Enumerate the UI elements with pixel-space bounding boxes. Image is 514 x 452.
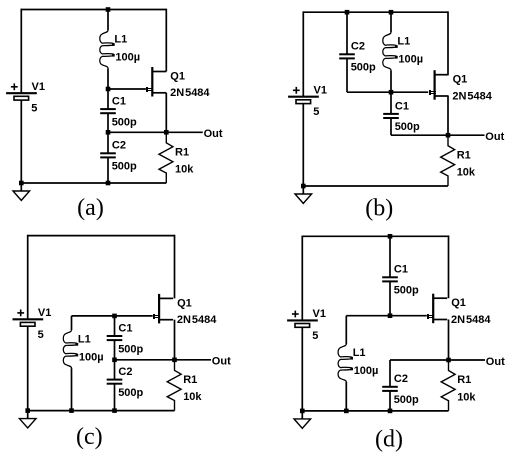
junction (d) L1 bottom node [344,409,349,414]
svg-text:(c): (c) [76,424,103,450]
circuit (c) [13,235,232,450]
wire (c) out rail [115,359,175,361]
battery V1 (d) body [295,324,310,328]
ground (a) stub [20,183,22,191]
svg-text:R1: R1 [183,374,197,386]
junction (a) top rail / L1 [106,7,111,12]
wire (a) L1 bottom lead [107,68,109,89]
wire (d) C1 bottom lead [389,281,391,315]
svg-text:C2: C2 [351,41,365,53]
svg-text:10k: 10k [457,391,476,403]
junction (a) out node [164,130,169,135]
svg-text:500p: 500p [118,343,143,355]
svg-text:L1: L1 [353,347,366,359]
resistor R1 (b) [441,135,455,186]
wire (d) gate wire [346,315,427,317]
wire (c) top rail [28,235,175,237]
inductor L1 (b) [383,32,397,70]
wire (c) C1 bottom lead [114,340,116,360]
ground (b) [295,194,312,203]
svg-text:Q1: Q1 [451,297,466,309]
capacitor C2 (d) [382,386,398,388]
wire (d) C2 top lead [389,360,391,387]
wire (a) C2 bottom lead [107,157,109,183]
resistor R1 (d) [441,360,455,411]
capacitor C1 (b) [383,113,399,115]
wire (c) bottom rail [28,410,175,412]
battery V1 (c) top plate [13,318,44,320]
transistor Q1 (a) source lead [152,92,166,94]
svg-text:L1: L1 [78,333,91,345]
wire (b) out rail [391,134,448,136]
junction (d) C2 bottom node [388,409,393,414]
wire (d) source rail [448,320,450,361]
transistor Q1 (c) source lead [159,319,173,321]
battery V1 (d) plus sign [292,313,299,315]
junction (c) C1/C2 node [112,358,117,363]
junction (d) ground node [300,409,305,414]
svg-text:Out: Out [486,356,505,368]
junction (a) ground node [19,181,24,186]
svg-text:500p: 500p [112,116,137,128]
wire (b) gate wire [347,91,428,93]
wire (b) drain rail [447,11,449,74]
wire (d) bottom rail [302,410,448,412]
svg-text:L1: L1 [397,36,410,48]
svg-text:L1: L1 [114,34,127,46]
wire (a) top rail [21,9,166,11]
ground (d) [294,419,311,428]
svg-text:100µ: 100µ [115,52,140,64]
capacitor C2 (b) [339,53,355,55]
wire (b) L1 top lead [390,12,392,32]
inductor L1 (d) [338,344,352,382]
svg-text:R1: R1 [457,374,471,386]
junction (b) ground node [301,184,306,189]
svg-text:Q1: Q1 [177,297,192,309]
svg-text:R1: R1 [457,149,471,161]
battery V1 (a) top plate [6,92,37,94]
wire (c) C1 top lead [114,316,116,336]
wire (c) L1 bottom lead [71,368,73,411]
svg-text:10k: 10k [183,391,202,403]
capacitor C1 (a) [100,108,116,110]
svg-text:2N 5484: 2N 5484 [170,87,210,99]
svg-text:C1: C1 [394,264,408,276]
wire (b) L1 bottom lead [390,70,392,92]
wire (a) drain rail [165,9,167,72]
ground (d) stub [301,411,303,419]
svg-text:500p: 500p [394,285,419,297]
transistor Q1 (b) source lead [435,95,449,97]
svg-text:10k: 10k [175,164,194,176]
wire (a) bottom rail [21,182,166,184]
capacitor C1 (c) [107,335,123,337]
wire (c) C2 bottom lead [114,384,116,411]
wire (b) C2 top lead [346,12,348,54]
wire (b) left rail upper [302,11,304,96]
svg-text:C2: C2 [112,140,126,152]
junction (a) C1/C2 node [106,130,111,135]
wire (b) left rail lower [302,104,304,186]
junction (d) out node [446,358,451,363]
svg-text:100µ: 100µ [398,54,423,66]
transistor Q1 (b) drain lead [435,74,449,76]
resistor R1 (a) [159,132,173,183]
svg-text:V1: V1 [32,81,45,93]
wire (b) C2 bottom lead [346,58,348,92]
battery V1 (c) plus sign [17,312,24,314]
svg-text:V1: V1 [314,85,327,97]
wire (d) C2 bottom lead [389,391,391,411]
wire (a) C1 bottom lead [107,113,109,132]
svg-text:500p: 500p [351,62,376,74]
wire (c) drain rail [174,235,176,299]
battery V1 (b) body [296,100,311,104]
junction (c) gate node / C1 [112,314,117,319]
wire (c) left rail upper [27,235,29,320]
wire (a) left rail lower [20,100,22,183]
wire (b) top rail [303,11,448,13]
ground (a) [13,191,30,200]
svg-text:V1: V1 [38,307,51,319]
battery V1 (b) top plate [288,96,319,98]
junction (a) C2 bottom node [106,181,111,186]
svg-text:(b): (b) [365,195,393,221]
wire (c) source rail [174,320,176,360]
svg-text:C2: C2 [394,373,408,385]
transistor Q1 (a) gate arrow [146,87,153,92]
circuit (d) [287,234,505,452]
svg-text:10k: 10k [457,167,476,179]
svg-text:2N 5484: 2N 5484 [177,314,217,326]
resistor R1 (c) [167,360,181,411]
junction (d) top rail / C1 [388,234,393,239]
junction (c) L1 bottom node [69,408,74,413]
wire (d) L1 top lead [345,316,347,344]
wire (a) L1 top lead [107,10,109,31]
wire Out (c) [175,359,212,361]
capacitor C2 (a) [100,152,116,154]
wire (b) bottom rail [303,185,448,187]
junction (b) top rail / L1 [389,10,394,15]
svg-text:500p: 500p [118,387,143,399]
inductor L1 (c) [63,330,77,368]
wire (a) C1 top lead [107,89,109,109]
svg-text:100µ: 100µ [79,351,104,363]
transistor Q1 (d) gate arrow [427,314,434,319]
wire (a) C2 top lead [107,132,109,153]
battery V1 (a) plus sign [11,86,18,88]
junction (c) C2 bottom node [112,408,117,413]
circuit (b) [288,10,504,222]
wire (d) C1 top lead [389,236,391,277]
svg-text:Out: Out [204,128,223,140]
svg-text:Q1: Q1 [453,74,468,86]
wire (c) gate wire [72,315,153,317]
transistor Q1 (d) channel bar [432,294,434,324]
svg-text:Out: Out [212,356,231,368]
wire (c) L1 top lead [71,316,73,330]
transistor Q1 (d) drain lead [433,297,447,299]
wire (c) C2 top lead [114,360,116,380]
svg-text:C1: C1 [112,96,126,108]
svg-text:(d): (d) [375,426,403,452]
svg-text:500p: 500p [394,394,419,406]
junction (b) top rail / C2 [345,10,350,15]
junction (b) gate node [389,90,394,95]
wire (d) left rail upper [301,235,303,320]
wire Out (a) [166,131,203,133]
wire (b) C1 bottom lead [390,118,392,135]
svg-text:2N 5484: 2N 5484 [451,314,491,326]
wire (a) left rail upper [20,9,22,94]
battery V1 (d) top plate [287,319,318,321]
transistor Q1 (a) drain lead [152,71,166,73]
svg-text:C2: C2 [118,366,132,378]
svg-text:5: 5 [313,106,319,118]
junction (a) gate node [106,87,111,92]
wire (d) L1 bottom lead [345,382,347,411]
svg-text:R1: R1 [175,147,189,159]
wire (b) source rail [447,96,449,135]
capacitor C1 (d) [382,276,398,278]
svg-text:5: 5 [312,330,318,342]
junction (d) gate node [388,313,393,318]
svg-text:5: 5 [31,103,37,115]
wire (d) top rail [302,235,448,237]
battery V1 (a) body [14,96,29,100]
ground (c) [19,419,36,428]
wire Out (d) [449,359,486,361]
svg-text:C1: C1 [118,322,132,334]
transistor Q1 (c) gate arrow [153,314,160,319]
capacitor C2 (c) [107,379,123,381]
wire Out (b) [448,134,485,136]
battery V1 (b) plus sign [293,89,300,91]
wire (a) source rail [165,93,167,133]
wire (a) gate wire [108,88,146,90]
junction (c) ground node [25,408,30,413]
transistor Q1 (a) channel bar [151,67,153,97]
svg-text:V1: V1 [313,308,326,320]
transistor Q1 (c) channel bar [158,294,160,324]
battery V1 (c) body [20,322,35,326]
svg-text:C1: C1 [395,100,409,112]
svg-text:(a): (a) [77,195,104,221]
wire (d) out rail to C2 [390,359,449,361]
transistor Q1 (b) gate arrow [429,90,436,95]
svg-text:500p: 500p [112,161,137,173]
wire (d) left rail lower [301,327,303,411]
wire (b) C1 top lead [390,92,392,114]
ground (c) stub [27,411,29,419]
junction (c) out node [172,358,177,363]
transistor Q1 (d) source lead [433,319,447,321]
junction (b) out node [446,133,451,138]
svg-text:5: 5 [38,329,44,341]
circuit (a) [6,7,223,221]
ground (b) stub [302,186,304,194]
transistor Q1 (c) drain lead [159,297,173,299]
svg-text:Q1: Q1 [170,71,185,83]
svg-text:Out: Out [485,131,504,143]
svg-text:100µ: 100µ [354,365,379,377]
wire (a) out rail [108,131,166,133]
wire (c) left rail lower [27,326,29,410]
transistor Q1 (b) channel bar [434,70,436,100]
wire (d) drain rail [448,235,450,298]
inductor L1 (a) [100,30,114,68]
svg-text:500p: 500p [395,121,420,133]
svg-text:2N 5484: 2N 5484 [452,90,492,102]
